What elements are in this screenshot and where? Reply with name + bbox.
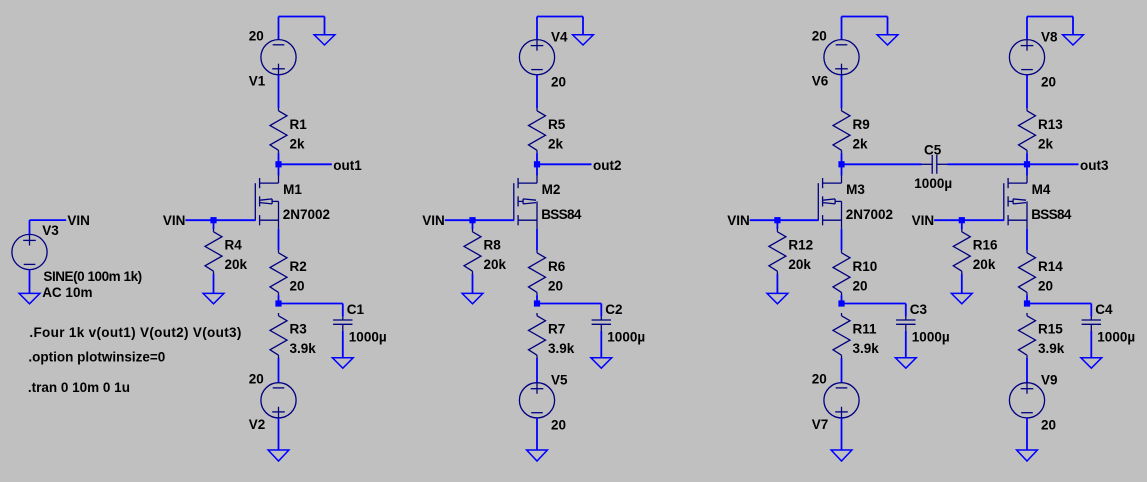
wire <box>213 274 215 293</box>
svg-text:M2: M2 <box>542 182 561 197</box>
voltage source V5 <box>519 373 568 433</box>
wire <box>279 17 325 35</box>
resistor R11 <box>833 313 879 358</box>
wire <box>278 295 280 303</box>
svg-text:20: 20 <box>1038 278 1053 293</box>
wire <box>841 295 843 303</box>
svg-text:out1: out1 <box>333 158 362 173</box>
svg-text:M1: M1 <box>283 182 302 197</box>
wire <box>536 295 538 303</box>
wire <box>278 17 280 40</box>
ground <box>268 450 289 461</box>
svg-text:2k: 2k <box>548 136 564 151</box>
svg-text:1000µ: 1000µ <box>912 329 950 344</box>
svg-text:C1: C1 <box>347 302 365 317</box>
wire <box>278 358 280 383</box>
wire <box>842 303 906 305</box>
wire <box>278 153 280 164</box>
resistor R16 <box>953 229 998 274</box>
junction <box>774 217 780 223</box>
wire <box>278 229 280 250</box>
wire <box>536 358 538 383</box>
svg-text:20k: 20k <box>225 257 248 272</box>
junction <box>838 300 844 306</box>
svg-text:V2: V2 <box>249 417 266 432</box>
wire <box>841 418 843 450</box>
wire <box>1026 295 1028 303</box>
svg-text:R9: R9 <box>853 117 870 132</box>
junction <box>1024 300 1030 306</box>
capacitor C5 <box>914 142 952 191</box>
svg-text:R8: R8 <box>484 238 502 253</box>
node junction <box>838 161 844 167</box>
svg-text:20: 20 <box>249 372 264 387</box>
node VIN label <box>67 213 90 228</box>
resistor R5 <box>529 108 566 153</box>
svg-text:V8: V8 <box>1041 30 1058 45</box>
svg-text:R5: R5 <box>548 117 566 132</box>
wire <box>961 220 963 229</box>
resistor R8 <box>464 229 507 274</box>
wire <box>213 220 215 229</box>
svg-text:VIN: VIN <box>67 213 90 228</box>
ground <box>19 293 40 303</box>
svg-text:1000µ: 1000µ <box>349 329 387 344</box>
svg-text:20: 20 <box>853 278 868 293</box>
svg-text:AC 10m: AC 10m <box>42 285 92 300</box>
ground <box>831 450 852 461</box>
svg-text:.tran 0 10m 0 1u: .tran 0 10m 0 1u <box>28 380 130 395</box>
svg-text:1000µ: 1000µ <box>914 176 952 191</box>
svg-text:out2: out2 <box>593 158 622 173</box>
node out1 <box>333 158 362 173</box>
wire <box>536 164 538 175</box>
ground <box>573 35 594 45</box>
ground <box>1063 35 1084 45</box>
wire <box>445 219 514 221</box>
svg-text:3.9k: 3.9k <box>548 341 575 356</box>
svg-text:C2: C2 <box>605 302 622 317</box>
wire <box>1026 418 1028 450</box>
wire <box>30 220 67 234</box>
wire <box>278 418 280 450</box>
resistor R10 <box>833 250 877 295</box>
wire <box>279 163 332 165</box>
wire <box>1027 163 1079 165</box>
wire <box>29 270 31 294</box>
svg-text:V6: V6 <box>812 74 829 89</box>
svg-text:VIN: VIN <box>727 213 750 228</box>
svg-text:20: 20 <box>551 74 566 89</box>
svg-text:VIN: VIN <box>422 213 445 228</box>
ground <box>767 293 788 303</box>
wire <box>278 164 280 175</box>
ground <box>203 293 224 303</box>
ground <box>462 293 483 303</box>
resistor R7 <box>529 313 575 358</box>
svg-text:BSS84: BSS84 <box>1031 207 1072 222</box>
wire <box>536 153 538 164</box>
node VIN label <box>727 213 750 228</box>
svg-text:out3: out3 <box>1080 158 1109 173</box>
wire <box>841 229 843 250</box>
svg-text:R4: R4 <box>225 238 243 253</box>
svg-text:20k: 20k <box>788 257 811 272</box>
svg-text:2k: 2k <box>290 136 306 151</box>
wire <box>537 17 583 35</box>
resistor R13 <box>1019 108 1064 153</box>
wire <box>750 219 819 221</box>
svg-text:V1: V1 <box>249 74 266 89</box>
wire <box>842 163 922 165</box>
wire <box>536 75 538 108</box>
ground <box>1017 450 1038 461</box>
ground <box>877 35 898 45</box>
svg-text:20: 20 <box>1041 418 1056 433</box>
node VIN label <box>422 213 445 228</box>
resistor R12 <box>769 229 813 274</box>
wire <box>1026 75 1028 108</box>
resistor R3 <box>270 313 316 358</box>
resistor R1 <box>270 108 307 153</box>
svg-text:3.9k: 3.9k <box>853 341 880 356</box>
ground <box>951 293 972 303</box>
svg-text:2k: 2k <box>1038 136 1054 151</box>
wire <box>776 274 778 293</box>
node VIN label <box>912 213 935 228</box>
svg-text:20: 20 <box>812 372 827 387</box>
voltage source V6 <box>812 29 859 89</box>
voltage source V1 <box>249 29 296 89</box>
ground <box>527 450 548 461</box>
svg-text:M3: M3 <box>846 182 865 197</box>
junction <box>210 217 216 223</box>
voltage source V8 <box>1009 30 1058 90</box>
wire <box>472 274 474 293</box>
svg-text:R3: R3 <box>290 322 308 337</box>
wire <box>536 418 538 450</box>
node VIN label <box>163 213 186 228</box>
svg-text:R12: R12 <box>788 238 813 253</box>
resistor R9 <box>833 108 870 153</box>
svg-text:M4: M4 <box>1032 182 1051 197</box>
svg-text:R2: R2 <box>290 259 307 274</box>
wire <box>1026 164 1028 175</box>
voltage source V2 <box>249 372 296 432</box>
svg-text:.Four 1k v(out1) V(out2) V(out: .Four 1k v(out1) V(out2) V(out3) <box>29 325 241 340</box>
wire <box>1026 358 1028 383</box>
transistor M3 2N7002 <box>818 175 893 229</box>
wire <box>841 17 843 40</box>
wire <box>776 220 778 229</box>
svg-text:V9: V9 <box>1041 373 1058 388</box>
wire <box>934 219 1004 221</box>
resistor R4 <box>205 229 248 274</box>
wire <box>536 17 538 40</box>
junction <box>959 217 965 223</box>
transistor M2 BSS84 <box>514 175 582 229</box>
ground <box>314 35 335 45</box>
svg-text:3.9k: 3.9k <box>290 341 317 356</box>
junction <box>534 300 540 306</box>
wire <box>948 163 1028 165</box>
svg-text:BSS84: BSS84 <box>541 207 582 222</box>
wire <box>842 17 888 35</box>
wire <box>278 75 280 108</box>
node out3 <box>1080 158 1109 173</box>
svg-text:3.9k: 3.9k <box>1038 341 1065 356</box>
svg-text:20: 20 <box>249 29 264 44</box>
svg-text:C5: C5 <box>924 142 942 157</box>
svg-text:1000µ: 1000µ <box>1097 329 1135 344</box>
svg-text:20: 20 <box>548 278 563 293</box>
svg-text:V4: V4 <box>551 30 568 45</box>
transistor M4 BSS84 <box>1004 175 1072 229</box>
wire <box>841 358 843 383</box>
resistor R15 <box>1019 313 1065 358</box>
node junction <box>275 161 281 167</box>
svg-text:20k: 20k <box>973 257 996 272</box>
wire <box>1027 303 1091 305</box>
voltage source V7 <box>812 372 859 432</box>
svg-text:V3: V3 <box>42 223 59 238</box>
wire <box>185 219 255 221</box>
node junction <box>1024 161 1030 167</box>
wire <box>472 220 474 229</box>
junction <box>275 300 281 306</box>
svg-text:R10: R10 <box>853 259 878 274</box>
wire <box>1026 17 1028 40</box>
svg-text:C4: C4 <box>1095 302 1113 317</box>
node out2 <box>593 158 622 173</box>
svg-text:VIN: VIN <box>163 213 186 228</box>
voltage source V9 <box>1009 373 1057 433</box>
wire <box>1026 229 1028 250</box>
resistor R14 <box>1019 250 1064 295</box>
svg-text:2N7002: 2N7002 <box>283 207 330 222</box>
voltage source V3 <box>12 223 142 300</box>
wire <box>841 164 843 175</box>
svg-text:V7: V7 <box>812 417 829 432</box>
wire <box>1026 153 1028 164</box>
svg-text:20k: 20k <box>484 257 507 272</box>
wire <box>279 303 343 305</box>
svg-text:20: 20 <box>1041 74 1056 89</box>
svg-text:R15: R15 <box>1038 322 1063 337</box>
svg-text:R7: R7 <box>548 322 565 337</box>
svg-text:2k: 2k <box>853 136 869 151</box>
capacitor C1 <box>332 302 386 368</box>
svg-text:R1: R1 <box>290 117 308 132</box>
wire <box>1027 17 1073 35</box>
wire <box>537 303 601 305</box>
wire <box>536 229 538 250</box>
svg-text:R14: R14 <box>1038 259 1063 274</box>
resistor R2 <box>270 250 307 295</box>
svg-text:R13: R13 <box>1038 117 1063 132</box>
capacitor C3 <box>895 302 949 368</box>
svg-text:VIN: VIN <box>912 213 935 228</box>
svg-text:C3: C3 <box>910 302 928 317</box>
svg-text:1000µ: 1000µ <box>607 329 645 344</box>
svg-text:20: 20 <box>812 29 827 44</box>
svg-text:20: 20 <box>290 278 305 293</box>
spice directive .option <box>28 350 165 365</box>
node junction <box>534 161 540 167</box>
svg-text:2N7002: 2N7002 <box>846 207 893 222</box>
wire <box>537 163 592 165</box>
svg-text:20: 20 <box>551 418 566 433</box>
svg-text:R16: R16 <box>973 238 998 253</box>
junction <box>469 217 475 223</box>
svg-text:V5: V5 <box>551 373 568 388</box>
capacitor C4 <box>1081 302 1135 368</box>
svg-text:R11: R11 <box>853 322 878 337</box>
spice directive .tran <box>28 380 130 395</box>
spice directive .four <box>29 325 241 340</box>
svg-text:SINE(0 100m 1k): SINE(0 100m 1k) <box>43 269 141 284</box>
svg-text:R6: R6 <box>548 259 566 274</box>
wire <box>841 153 843 164</box>
voltage source V4 <box>519 30 568 90</box>
svg-text:.option plotwinsize=0: .option plotwinsize=0 <box>28 350 165 365</box>
resistor R6 <box>529 250 566 295</box>
capacitor C2 <box>591 302 645 368</box>
transistor M1 2N7002 <box>255 175 330 229</box>
wire <box>841 75 843 108</box>
wire <box>961 274 963 293</box>
